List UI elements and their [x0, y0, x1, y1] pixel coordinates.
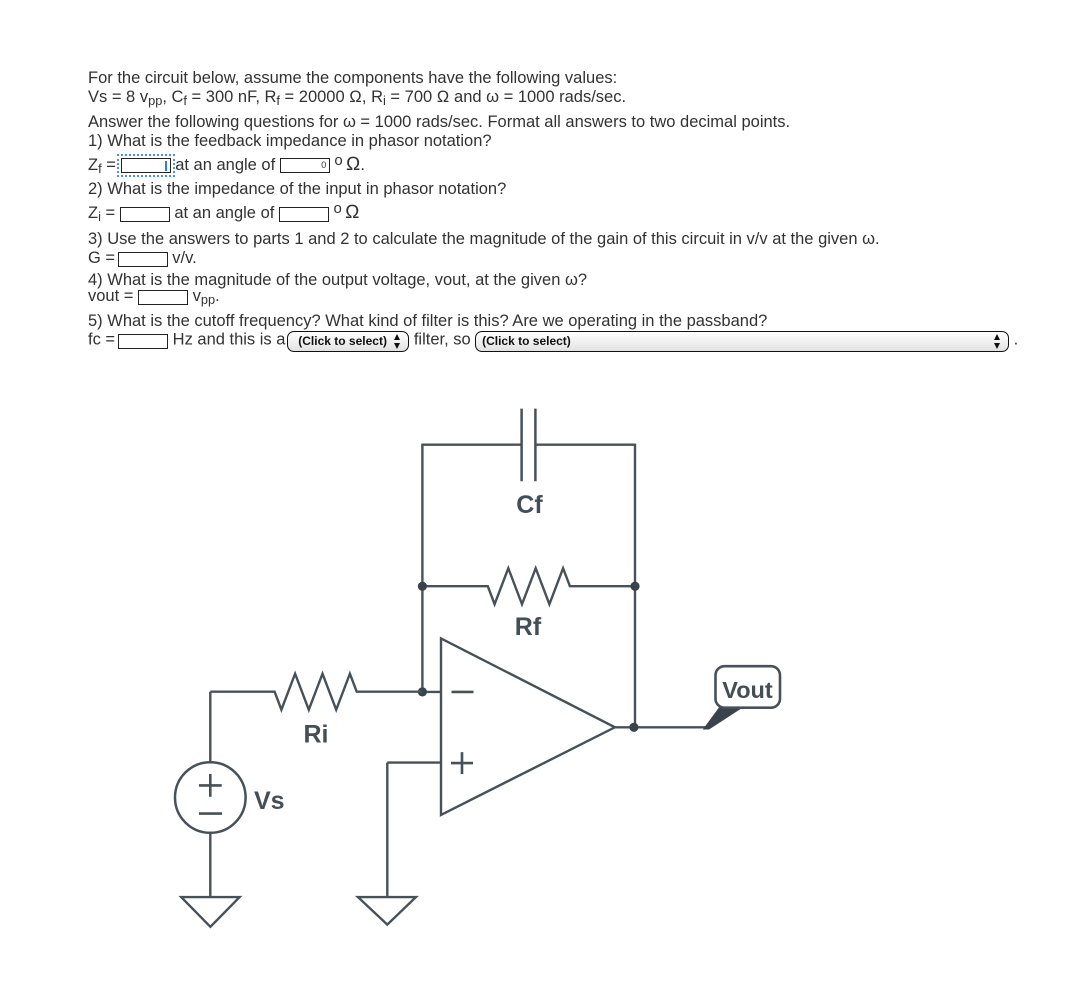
wire right vertical feedback: [634, 444, 636, 728]
node inverting input: [418, 687, 427, 696]
ground GND1: [181, 897, 239, 927]
wire cap right lead: [535, 444, 635, 446]
resistor Rf: [422, 568, 635, 604]
node junction Rf right: [630, 582, 639, 591]
wire non-inverting ground vertical: [386, 763, 388, 898]
svg-text:Rf: Rf: [515, 613, 542, 641]
resistor Ri with leads: [210, 674, 422, 710]
svg-text:Vout: Vout: [722, 677, 773, 703]
node junction Rf left: [418, 582, 427, 591]
svg-text:Ri: Ri: [304, 721, 329, 749]
svg-text:Cf: Cf: [516, 491, 543, 519]
source Vs circle: [175, 762, 246, 833]
wire Vs top vertical: [209, 692, 211, 763]
node output: [629, 723, 638, 732]
wire top-left feedback (cap left lead): [422, 444, 521, 446]
wire output: [615, 726, 707, 728]
op-amp plus input sign: [451, 752, 473, 774]
wire non-inverting input horizontal: [387, 761, 441, 763]
capacitor Cf: [522, 409, 536, 482]
op-amp U1: [441, 638, 615, 815]
source plus sign: [199, 774, 222, 797]
ground GND2: [358, 897, 416, 925]
wire Vs bottom vertical: [209, 833, 211, 897]
Vout tag pointer: [703, 707, 744, 730]
op-amp minus input sign: [452, 691, 474, 694]
source minus sign: [199, 812, 222, 815]
wire left vertical feedback: [421, 444, 423, 692]
wire inverting input: [422, 691, 441, 693]
svg-text:Vs: Vs: [254, 787, 285, 815]
Vout tag box: [716, 666, 781, 708]
